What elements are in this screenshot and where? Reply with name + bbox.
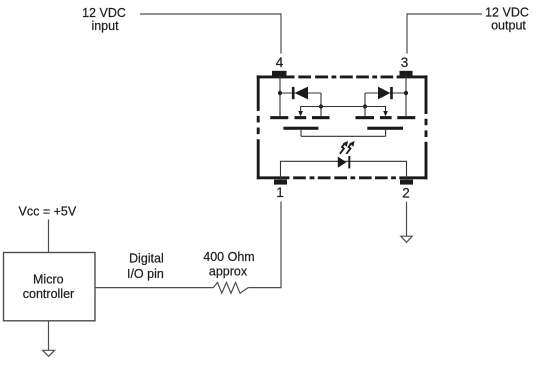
svg-text:400 Ohm: 400 Ohm bbox=[203, 250, 254, 264]
LED cathode bar bbox=[348, 156, 350, 168]
LED triangle (anode) bbox=[338, 157, 347, 168]
LED light emission arrow 2 bbox=[346, 141, 354, 154]
microcontroller box bbox=[4, 253, 96, 321]
wire Q2 source drop bbox=[364, 93, 366, 117]
relay package outline top border (dash-dot) bbox=[257, 75, 428, 78]
Q1 body contact bar bbox=[295, 116, 307, 119]
Q1 body arrow head bbox=[298, 111, 303, 116]
pin 4 pad bbox=[272, 71, 287, 76]
wire pin 2 to ground bbox=[406, 202, 408, 236]
svg-text:approx: approx bbox=[209, 264, 248, 278]
svg-text:2: 2 bbox=[402, 185, 410, 200]
wire 12VDC output to pin 3 bbox=[407, 14, 482, 54]
wire common source tie bbox=[321, 106, 365, 108]
body diode D2 (triangle, pointing right) bbox=[378, 87, 390, 100]
Q2 drain contact bar bbox=[397, 116, 415, 119]
wire LED loop pin1 to pin2 bbox=[281, 161, 407, 179]
svg-text:12 VDC: 12 VDC bbox=[485, 5, 529, 19]
wire Q1 gate drop bbox=[300, 130, 302, 137]
wire 12VDC input to pin 4 bbox=[140, 14, 281, 54]
resistor R1 400 Ohm (zigzag) bbox=[213, 282, 248, 293]
wire Q1 body connection bbox=[301, 107, 321, 112]
wire Q2 body connection bbox=[365, 107, 386, 112]
body diode D2 (cathode bar) bbox=[390, 87, 393, 99]
wire microcontroller I/O to resistor bbox=[95, 287, 213, 289]
Q2 gate bar bbox=[367, 127, 403, 130]
pin 1 pad bbox=[274, 180, 287, 185]
svg-text:Vcc = +5V: Vcc = +5V bbox=[19, 205, 77, 219]
label Micro controller bbox=[23, 273, 74, 301]
LED light emission arrow 1 bbox=[340, 141, 348, 154]
pin 3 pad bbox=[400, 71, 413, 76]
svg-text:Micro: Micro bbox=[33, 273, 64, 287]
wire common gate tie bbox=[301, 135, 386, 137]
wire Vcc to microcontroller bbox=[48, 220, 50, 253]
Q2 body contact bar bbox=[380, 116, 392, 119]
relay package outline left border (dash-dot) bbox=[257, 75, 260, 179]
Q2 body arrow head bbox=[383, 111, 388, 116]
relay package outline right border (dash-dot) bbox=[425, 75, 428, 179]
svg-text:I/O pin: I/O pin bbox=[127, 267, 164, 281]
label Digital I/O pin bbox=[127, 252, 164, 282]
MOSFET Q2 drain wire from pin 3 bbox=[405, 76, 407, 117]
wire resistor to pin 1 bbox=[248, 202, 281, 288]
label 12 VDC input bbox=[82, 6, 126, 33]
svg-text:input: input bbox=[91, 19, 119, 33]
Q2 source contact bar bbox=[356, 116, 375, 119]
relay package outline bottom border (dash-dot) bbox=[257, 176, 428, 179]
label 400 Ohm approx bbox=[203, 250, 254, 278]
wire Q2 gate drop bbox=[385, 130, 387, 137]
svg-text:1: 1 bbox=[276, 185, 284, 200]
body diode D1 (triangle, pointing left) bbox=[295, 87, 309, 100]
node: Q2 source junction bbox=[363, 104, 367, 108]
Q1 gate bar bbox=[283, 127, 318, 130]
svg-text:output: output bbox=[491, 18, 526, 32]
wire Q1 source drop bbox=[320, 93, 322, 117]
wire microcontroller to ground bbox=[48, 321, 50, 350]
wire Q2 body diode horizontal bbox=[365, 92, 406, 94]
node: Q2 drain junction bbox=[404, 91, 408, 95]
svg-text:4: 4 bbox=[276, 55, 284, 70]
pin 2 pad bbox=[400, 180, 413, 185]
svg-text:3: 3 bbox=[401, 55, 409, 70]
label 12 VDC output bbox=[485, 5, 529, 32]
body diode D1 (cathode bar) bbox=[292, 87, 295, 99]
ground symbol (pin 2) bbox=[401, 236, 412, 242]
node: Q1 source junction bbox=[319, 104, 323, 108]
svg-text:Digital: Digital bbox=[129, 252, 164, 266]
node: Q1 drain junction bbox=[278, 91, 282, 95]
Q1 drain contact bar bbox=[270, 116, 288, 119]
svg-text:controller: controller bbox=[23, 287, 74, 301]
ground symbol (microcontroller) bbox=[43, 350, 55, 356]
wire Q1 body diode horizontal bbox=[280, 92, 321, 94]
MOSFET Q1 drain wire from pin 4 bbox=[279, 76, 281, 117]
Q1 source contact bar bbox=[312, 116, 330, 119]
